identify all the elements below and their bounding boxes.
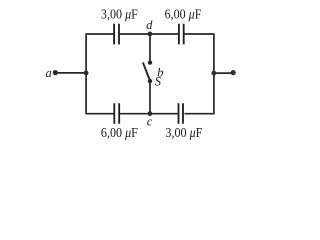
wire top segment middle <box>120 33 179 35</box>
capacitor C2 6,00 uF top-right plates <box>179 24 184 45</box>
switch S arm <box>143 63 150 81</box>
wire terminal a lead <box>55 72 86 74</box>
wire left vertical <box>85 33 87 114</box>
svg-text:3,00 μF: 3,00 μF <box>165 125 202 140</box>
wire top segment left <box>86 33 113 35</box>
right junction dot <box>212 71 217 76</box>
svg-text:S: S <box>155 75 162 89</box>
svg-text:c: c <box>147 115 153 129</box>
node d junction dot <box>148 32 153 37</box>
wire right vertical <box>213 33 215 114</box>
capacitor C4 3,00 uF bottom-right plates <box>179 103 184 124</box>
wire bottom segment middle <box>120 113 178 115</box>
switch S lower contact dot <box>148 79 152 83</box>
terminal a dot <box>53 70 58 75</box>
node c junction dot <box>148 111 153 116</box>
svg-text:a: a <box>46 66 52 80</box>
wire bottom segment left <box>86 113 114 115</box>
svg-text:6,00 μF: 6,00 μF <box>101 125 138 140</box>
switch S upper contact dot <box>148 60 152 64</box>
wire bottom segment right <box>184 113 214 115</box>
capacitor C3 6,00 uF bottom-left plates <box>114 103 119 124</box>
wire middle branch upper <box>149 34 151 63</box>
right terminal dot <box>231 70 236 75</box>
wire right terminal lead <box>214 72 233 74</box>
wire top segment right <box>184 33 214 35</box>
svg-text:3,00 μF: 3,00 μF <box>101 7 138 22</box>
wire middle branch lower <box>149 81 151 114</box>
left junction dot <box>84 71 89 76</box>
capacitor C1 3,00 uF top-left plates <box>114 24 119 45</box>
svg-text:d: d <box>146 18 153 32</box>
svg-text:6,00 μF: 6,00 μF <box>165 7 202 22</box>
